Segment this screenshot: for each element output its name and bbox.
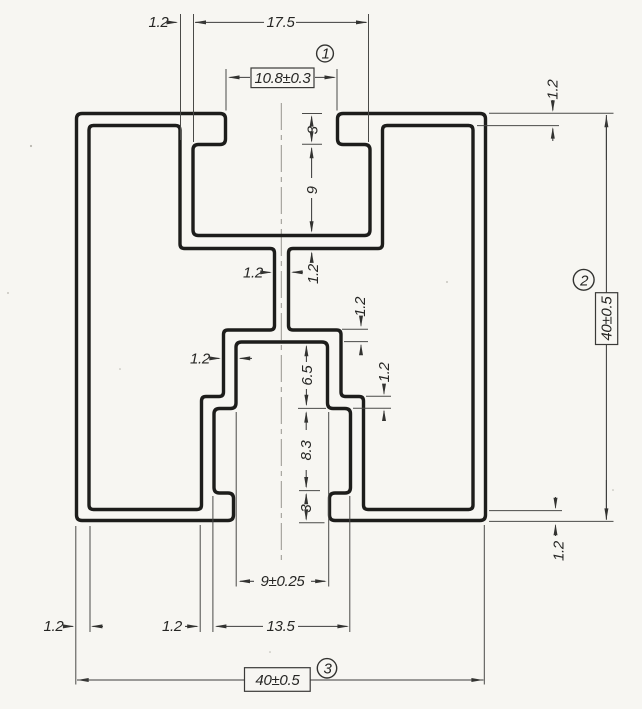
svg-text:1.2: 1.2 [243,265,264,282]
svg-text:1.2: 1.2 [190,350,211,367]
svg-text:1.2: 1.2 [544,79,561,100]
svg-text:9±0.25: 9±0.25 [261,573,306,590]
svg-text:40±0.5: 40±0.5 [599,296,616,341]
svg-text:1.2: 1.2 [550,540,567,561]
svg-text:17.5: 17.5 [267,14,296,31]
svg-text:3: 3 [323,661,332,678]
svg-text:9: 9 [304,185,321,194]
svg-text:1.2: 1.2 [376,361,393,382]
svg-text:2: 2 [579,272,589,289]
svg-text:1.2: 1.2 [352,296,369,317]
svg-text:3: 3 [298,504,315,513]
svg-text:1.2: 1.2 [149,14,170,31]
svg-text:1.2: 1.2 [162,618,183,635]
svg-text:10.8±0.3: 10.8±0.3 [255,70,312,87]
svg-text:1.2: 1.2 [44,618,65,635]
svg-text:40±0.5: 40±0.5 [255,672,300,689]
svg-text:3: 3 [305,125,322,134]
svg-text:8.3: 8.3 [298,440,315,461]
svg-text:1.2: 1.2 [305,263,322,284]
svg-text:1: 1 [321,46,329,63]
svg-text:13.5: 13.5 [267,618,296,635]
svg-text:6.5: 6.5 [299,365,316,386]
